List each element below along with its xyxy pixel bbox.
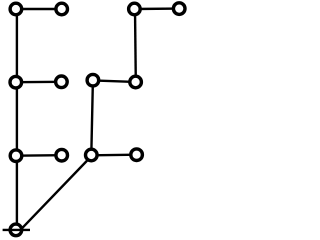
- node C: [129, 3, 141, 15]
- node F: [56, 76, 68, 88]
- wire G-H: [93, 80, 136, 82]
- wire M strike-through: [3, 229, 30, 231]
- wire M-K diagonal: [20, 155, 92, 230]
- wire I-M: [16, 156, 18, 230]
- wire C-D: [134, 7, 179, 10]
- node H: [130, 76, 142, 88]
- wire E-I: [16, 82, 18, 156]
- node A: [10, 3, 22, 15]
- node E: [10, 76, 22, 88]
- wire I-J: [16, 154, 62, 157]
- wire A-E: [16, 9, 18, 82]
- node J: [56, 149, 68, 161]
- node I: [10, 150, 22, 162]
- node K: [86, 149, 98, 161]
- node M (root): [10, 224, 22, 236]
- wire C-H: [134, 9, 137, 82]
- node G: [87, 74, 99, 86]
- wire E-F: [16, 81, 62, 84]
- node B: [56, 3, 68, 15]
- node L: [131, 149, 143, 161]
- node D: [173, 3, 185, 15]
- wire K-L: [91, 153, 136, 156]
- wire A-B: [16, 8, 62, 10]
- wire G-K: [91, 80, 93, 155]
